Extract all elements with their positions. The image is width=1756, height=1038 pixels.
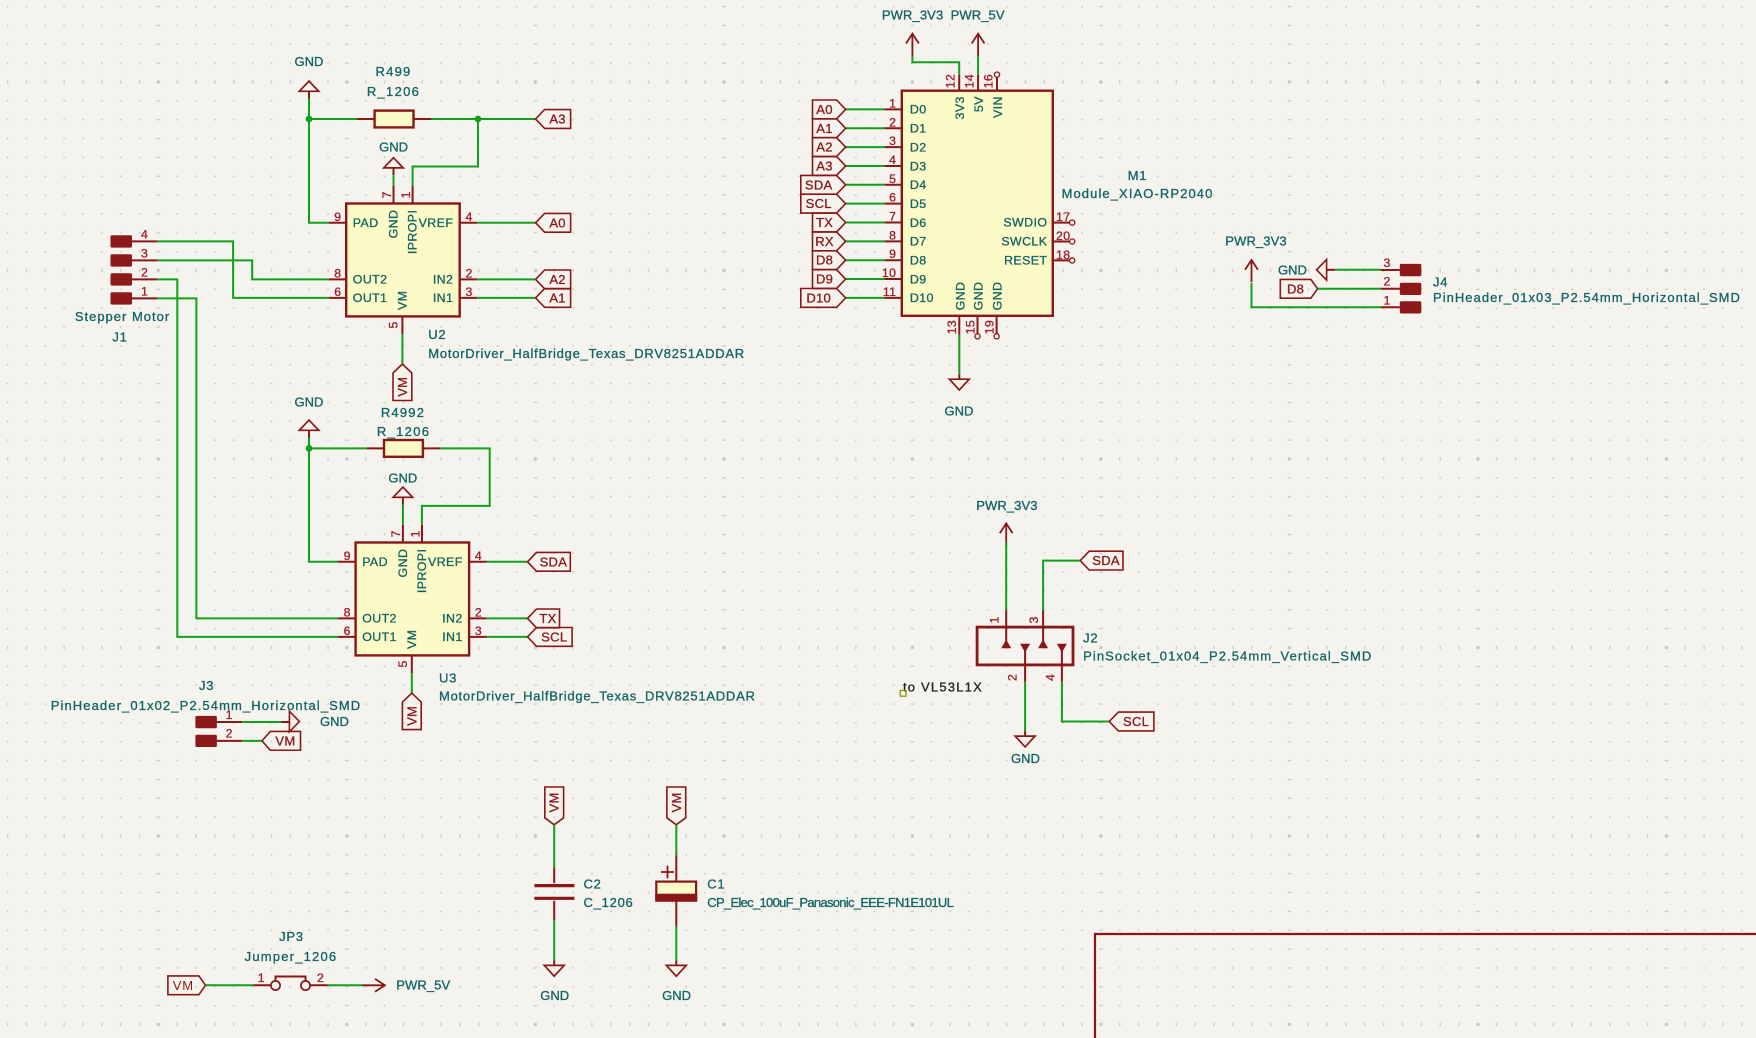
svg-text:D6: D6 [910, 216, 927, 230]
svg-text:OUT1: OUT1 [353, 291, 388, 305]
svg-text:Module_XIAO-RP2040: Module_XIAO-RP2040 [1062, 186, 1214, 201]
svg-text:5V: 5V [972, 96, 986, 112]
socket J2 [977, 611, 1073, 682]
svg-text:VM: VM [547, 792, 562, 812]
global label VM (C2) [545, 787, 564, 825]
module M1 XIAO-RP2040 [882, 72, 1075, 339]
wire D8 to J4 pin2 [1318, 288, 1381, 290]
wire J1 pin2 to U3 OUT1 [157, 279, 338, 637]
svg-text:U2: U2 [428, 327, 446, 342]
svg-text:RESET: RESET [1004, 253, 1047, 267]
svg-text:IN2: IN2 [433, 272, 453, 286]
wire SDA to J2 pin3 [1043, 561, 1080, 611]
svg-text:3: 3 [1027, 616, 1041, 623]
svg-text:JP3: JP3 [279, 929, 304, 944]
svg-text:A2: A2 [816, 140, 833, 155]
connector J1 Stepper Motor [111, 228, 158, 305]
svg-text:TX: TX [539, 611, 556, 626]
wire GND3 to junction C [308, 438, 310, 449]
svg-text:10: 10 [882, 266, 896, 280]
svg-text:PWR_5V: PWR_5V [951, 8, 1005, 23]
wire J1 pin1 to U3 OUT2 [157, 298, 338, 618]
svg-text:Stepper Motor: Stepper Motor [75, 309, 170, 324]
svg-text:IN1: IN1 [433, 291, 453, 305]
ground GND (M1) [949, 374, 969, 390]
wire GND4 to U3 pin 7 [402, 505, 404, 525]
svg-text:GND: GND [387, 210, 401, 239]
svg-text:6: 6 [334, 285, 341, 299]
svg-text:13: 13 [945, 320, 959, 334]
svg-text:2: 2 [889, 115, 896, 129]
svg-text:GND: GND [945, 404, 974, 419]
svg-text:9: 9 [334, 210, 341, 224]
svg-text:PAD: PAD [353, 216, 379, 230]
svg-text:VM: VM [395, 291, 409, 310]
svg-text:D4: D4 [910, 178, 927, 192]
svg-text:16: 16 [981, 74, 995, 88]
global label D9 (M1) [813, 270, 846, 289]
wire PWR_3V3 to J4 pin1 [1252, 283, 1381, 307]
svg-text:D7: D7 [910, 235, 927, 249]
svg-text:VM: VM [669, 792, 684, 812]
svg-text:SCL: SCL [806, 196, 832, 211]
svg-text:4: 4 [475, 549, 482, 563]
svg-text:1: 1 [1383, 293, 1390, 307]
svg-text:D9: D9 [910, 272, 927, 286]
svg-text:GND: GND [396, 549, 410, 578]
svg-text:D10: D10 [910, 291, 934, 305]
svg-text:1: 1 [889, 96, 896, 110]
wire A0 to M1 [846, 108, 885, 110]
global label SCL (J2) [1109, 712, 1154, 731]
wire SDA to M1 [846, 184, 885, 186]
wire U2 VREF to A0 [477, 222, 535, 224]
svg-text:D9: D9 [816, 272, 833, 287]
motor driver U3 [338, 525, 487, 673]
svg-text:R_1206: R_1206 [367, 84, 420, 99]
wire PAD net [309, 119, 329, 223]
wire A1 to M1 [846, 127, 885, 129]
svg-text:OUT2: OUT2 [362, 611, 397, 625]
M1 unconnected pin 17 marker [1070, 220, 1075, 225]
global label TX (M1) [813, 213, 846, 232]
global label VM (U3) [402, 693, 421, 730]
svg-text:SDA: SDA [1092, 553, 1120, 568]
svg-text:4: 4 [1044, 674, 1058, 681]
wire D10 to M1 [846, 297, 885, 299]
svg-text:1: 1 [226, 708, 233, 722]
svg-text:J2: J2 [1083, 631, 1098, 646]
svg-text:OUT2: OUT2 [353, 272, 388, 286]
wire D9 to M1 [846, 278, 885, 280]
wire junction C to R4992 [309, 447, 366, 449]
power symbol PWR_3V3 (J2) [1000, 523, 1013, 545]
svg-text:PinHeader_01x02_P2.54mm_Horizo: PinHeader_01x02_P2.54mm_Horizontal_SMD [51, 698, 362, 713]
svg-text:4: 4 [141, 228, 148, 242]
ground GND #1 [299, 81, 318, 98]
svg-text:6: 6 [344, 624, 351, 638]
wire U2 VM [401, 334, 403, 364]
svg-text:7: 7 [889, 210, 896, 224]
global label SCL (U3) [528, 628, 573, 647]
svg-text:MotorDriver_HalfBridge_Texas_D: MotorDriver_HalfBridge_Texas_DRV8251ADDA… [439, 688, 756, 703]
svg-text:VM: VM [405, 630, 419, 649]
svg-text:2: 2 [466, 266, 473, 280]
global label SDA (U3) [528, 552, 571, 571]
motor driver U2 [329, 186, 478, 334]
svg-text:SCL: SCL [1123, 714, 1149, 729]
svg-text:12: 12 [944, 74, 958, 88]
svg-text:20: 20 [1056, 229, 1070, 243]
hierarchical label GND (J3) [289, 711, 299, 732]
svg-text:D3: D3 [910, 159, 927, 173]
svg-text:3: 3 [466, 285, 473, 299]
svg-text:J3: J3 [199, 678, 214, 693]
svg-text:GND: GND [295, 54, 324, 69]
svg-text:9: 9 [889, 247, 896, 261]
connector J3 [195, 708, 242, 747]
M1 unconnected pin 19 marker [994, 334, 999, 339]
svg-text:17: 17 [1056, 210, 1070, 224]
svg-text:PWR_5V: PWR_5V [396, 977, 450, 992]
svg-text:18: 18 [1056, 248, 1070, 262]
power symbol PWR_3V3 (J4) [1245, 260, 1258, 282]
C1 plus sign [661, 871, 674, 873]
svg-text:A1: A1 [816, 121, 833, 136]
wire TX to M1 [846, 222, 885, 224]
svg-text:A0: A0 [549, 215, 566, 230]
svg-text:A1: A1 [549, 290, 566, 305]
wire U3 VM [411, 673, 413, 693]
wire VM to C1 [675, 825, 677, 856]
wire A3 to M1 [846, 165, 885, 167]
power symbol PWR_3V3 (M1) [906, 34, 919, 56]
wire U3 PAD net [309, 448, 338, 561]
svg-text:PinHeader_01x03_P2.54mm_Horizo: PinHeader_01x03_P2.54mm_Horizontal_SMD [1433, 290, 1741, 305]
sheet border bottom-right [1095, 934, 1756, 1038]
global label A1 [536, 289, 571, 308]
ground GND #3 [299, 420, 318, 437]
wire GND to J4 pin3 [1335, 269, 1381, 271]
capacitor C1 [655, 856, 697, 927]
wire M1 pin13 to GND [958, 335, 960, 374]
wire J1 pin4 to U2 OUT1 [157, 241, 328, 298]
svg-text:A0: A0 [816, 102, 833, 117]
svg-text:SDA: SDA [805, 177, 833, 192]
wire SCL to M1 [846, 203, 885, 205]
svg-text:SCL: SCL [541, 629, 567, 644]
svg-text:VM: VM [275, 733, 295, 748]
svg-text:2: 2 [317, 971, 324, 985]
ground GND #4 [393, 487, 412, 504]
svg-text:14: 14 [962, 74, 976, 88]
global label D10 (M1) [801, 289, 846, 308]
wire U2 IN2 to A2 [477, 278, 535, 280]
svg-text:1: 1 [408, 530, 422, 537]
svg-text:C1: C1 [707, 877, 725, 892]
svg-text:D8: D8 [816, 253, 833, 268]
global label A0 (M1) [813, 100, 846, 119]
global label VM (JP3) [168, 976, 206, 995]
global label SCL (M1) [801, 194, 846, 213]
wire U2 IN1 to A1 [477, 297, 535, 299]
svg-text:5: 5 [889, 172, 896, 186]
svg-text:D2: D2 [910, 140, 927, 154]
global label A3 [536, 110, 571, 129]
svg-text:D8: D8 [910, 254, 927, 268]
svg-text:PWR_3V3: PWR_3V3 [976, 498, 1037, 513]
wire VM to C2 [553, 825, 555, 868]
global label D8 (J4) [1280, 279, 1317, 298]
svg-text:VREF: VREF [419, 216, 454, 230]
M1 unconnected pin 16 marker [994, 72, 999, 77]
wire PWR_3V3 to J2 pin1 [1005, 542, 1007, 610]
svg-text:4: 4 [466, 210, 473, 224]
global label A3 (M1) [813, 157, 846, 176]
wire C1 to GND [675, 926, 677, 960]
M1 unconnected pin 18 marker [1070, 258, 1075, 263]
svg-text:IPROPI: IPROPI [415, 549, 429, 593]
wire J3 pin1 to GND [242, 721, 281, 723]
svg-text:OUT1: OUT1 [362, 630, 397, 644]
svg-text:PinSocket_01x04_P2.54mm_Vertic: PinSocket_01x04_P2.54mm_Vertical_SMD [1083, 648, 1372, 663]
ground GND (J2) [1015, 731, 1035, 747]
svg-text:SWCLK: SWCLK [1001, 235, 1047, 249]
svg-text:GND: GND [972, 282, 986, 311]
svg-text:15: 15 [963, 320, 977, 334]
svg-text:GND: GND [379, 140, 408, 155]
svg-text:1: 1 [988, 616, 1002, 623]
svg-text:8: 8 [344, 605, 351, 619]
svg-text:8: 8 [334, 266, 341, 280]
ground GND #2 [384, 158, 403, 175]
svg-text:A3: A3 [816, 158, 833, 173]
power symbol PWR_5V (M1) [972, 34, 985, 56]
ground GND (C2) [544, 960, 564, 976]
svg-text:J1: J1 [112, 329, 127, 344]
wire A2 to M1 [846, 146, 885, 148]
global label VM (J3) [262, 731, 301, 750]
svg-text:IN2: IN2 [442, 611, 462, 625]
wire PWR_3V3 to M1 3V3 [912, 56, 959, 75]
svg-text:M1: M1 [1128, 168, 1148, 183]
svg-text:7: 7 [380, 191, 394, 198]
wire J3 pin2 to VM [242, 740, 262, 742]
svg-text:GND: GND [991, 282, 1005, 311]
capacitor C2 [534, 867, 574, 920]
wire R4992 to U3 IPROPI [422, 448, 490, 524]
svg-text:8: 8 [889, 228, 896, 242]
svg-text:3: 3 [475, 624, 482, 638]
wire R499 to A3 [431, 118, 536, 120]
svg-text:3: 3 [1383, 256, 1390, 270]
junction node A [306, 116, 313, 123]
svg-text:Jumper_1206: Jumper_1206 [245, 949, 338, 964]
svg-text:11: 11 [883, 285, 897, 299]
svg-text:7: 7 [389, 530, 403, 537]
svg-text:3: 3 [141, 247, 148, 261]
svg-text:IN1: IN1 [442, 630, 462, 644]
hier GND stub J3 [281, 721, 289, 723]
svg-text:3V3: 3V3 [953, 96, 967, 119]
svg-text:RX: RX [815, 234, 834, 249]
wire GND1 to junction [308, 99, 310, 120]
svg-text:4: 4 [889, 153, 896, 167]
global label A0 [536, 213, 571, 232]
svg-text:VREF: VREF [428, 555, 463, 569]
hierarchical label GND (J4) [1317, 260, 1327, 281]
ground GND (C1) [666, 960, 686, 976]
wire J2 pin4 to SCL [1062, 682, 1109, 722]
global label VM (C1) [667, 787, 686, 825]
svg-text:D8: D8 [1287, 281, 1304, 296]
svg-text:R_1206: R_1206 [377, 424, 430, 439]
wire junction B down to IPROPI [413, 119, 478, 186]
wire PWR_5V to M1 5V [977, 56, 979, 75]
svg-text:D5: D5 [910, 197, 927, 211]
svg-text:GND: GND [1011, 751, 1040, 766]
wire J1 pin3 to U2 OUT2 [157, 260, 328, 279]
global label A2 [536, 270, 571, 289]
svg-text:3: 3 [889, 134, 896, 148]
svg-text:GND: GND [388, 471, 417, 486]
svg-text:VM: VM [173, 978, 194, 993]
svg-text:GND: GND [320, 714, 349, 729]
global label A2 (M1) [813, 138, 846, 157]
svg-text:CP_Elec_100uF_Panasonic_EEE-FN: CP_Elec_100uF_Panasonic_EEE-FN1E101UL [707, 895, 953, 910]
svg-text:GND: GND [953, 282, 967, 311]
global label RX (M1) [813, 232, 846, 251]
global label TX [528, 609, 560, 628]
svg-text:2: 2 [475, 605, 482, 619]
svg-text:2: 2 [1005, 674, 1019, 681]
svg-text:VIN: VIN [991, 96, 1005, 118]
power symbol PWR_5V (JP3) [363, 979, 385, 992]
svg-text:VM: VM [395, 377, 410, 397]
svg-text:GND: GND [1278, 262, 1307, 277]
svg-text:J4: J4 [1433, 275, 1448, 290]
global label SDA (M1) [801, 175, 846, 194]
svg-text:IPROPI: IPROPI [406, 210, 420, 254]
M1 unconnected pin 20 marker [1070, 239, 1075, 244]
svg-text:2: 2 [1383, 275, 1390, 289]
svg-text:GND: GND [662, 988, 691, 1003]
svg-text:R4992: R4992 [381, 405, 425, 420]
svg-text:A3: A3 [549, 112, 566, 127]
svg-text:VM: VM [404, 706, 419, 726]
global label D8 (M1) [813, 251, 846, 270]
svg-text:R499: R499 [376, 64, 412, 79]
svg-text:6: 6 [889, 191, 896, 205]
svg-text:GND: GND [295, 395, 324, 410]
svg-text:2: 2 [226, 727, 233, 741]
jumper JP3 [253, 971, 327, 990]
svg-text:1: 1 [399, 191, 413, 198]
svg-text:9: 9 [344, 549, 351, 563]
wire JP3 pin2 to PWR_5V [328, 984, 364, 986]
wire junction to R499 [309, 118, 357, 120]
wire U3 IN1 to SCL [487, 636, 528, 638]
svg-text:PWR_3V3: PWR_3V3 [1225, 233, 1286, 248]
global label SDA (J2) [1080, 551, 1123, 570]
svg-text:PAD: PAD [362, 555, 388, 569]
wire RX to M1 [846, 240, 885, 242]
svg-text:C_1206: C_1206 [584, 895, 634, 910]
svg-text:2: 2 [141, 266, 148, 280]
svg-text:TX: TX [816, 215, 833, 230]
svg-text:1: 1 [141, 285, 148, 299]
svg-text:5: 5 [387, 321, 401, 328]
svg-text:5: 5 [396, 660, 410, 667]
svg-text:A2: A2 [549, 272, 566, 287]
global label A1 (M1) [813, 119, 846, 138]
svg-text:to VL53L1X: to VL53L1X [903, 679, 983, 694]
svg-text:PWR_3V3: PWR_3V3 [882, 8, 943, 23]
wire U3 VREF to SDA [487, 561, 528, 563]
svg-text:SWDIO: SWDIO [1003, 216, 1047, 230]
svg-text:SDA: SDA [540, 554, 568, 569]
svg-text:D1: D1 [910, 122, 927, 136]
svg-text:D10: D10 [806, 290, 831, 305]
junction node B [475, 116, 482, 123]
M1 unconnected pin 15 marker [975, 334, 980, 339]
wire J2 pin2 to GND [1024, 682, 1026, 731]
resistor R499 [357, 111, 431, 128]
svg-text:MotorDriver_HalfBridge_Texas_D: MotorDriver_HalfBridge_Texas_DRV8251ADDA… [428, 346, 745, 361]
svg-text:U3: U3 [439, 670, 457, 685]
svg-text:19: 19 [983, 320, 997, 334]
junction node C [306, 445, 313, 452]
wire C2 to GND [553, 920, 555, 961]
connector J4 [1381, 256, 1421, 314]
svg-text:C2: C2 [584, 877, 602, 892]
text anchor marker [900, 690, 906, 696]
global label VM (U2) [393, 364, 412, 401]
wire GND2 to U2 pin 7 [393, 175, 395, 186]
svg-text:1: 1 [258, 971, 265, 985]
wire VM to JP3 pin1 [206, 984, 254, 986]
resistor R4992 [366, 440, 440, 457]
svg-text:GND: GND [540, 988, 569, 1003]
wire U3 IN2 to TX [487, 617, 528, 619]
wire D8 to M1 [846, 259, 885, 261]
hier GND stub J4 [1327, 269, 1336, 271]
svg-text:D0: D0 [910, 103, 927, 117]
